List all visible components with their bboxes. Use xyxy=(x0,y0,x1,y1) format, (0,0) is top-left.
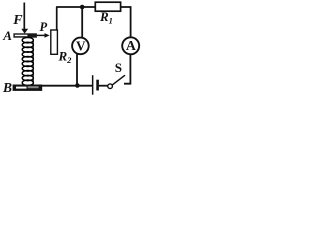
svg-text:S: S xyxy=(115,60,122,75)
svg-text:A: A xyxy=(2,28,12,43)
svg-text:P: P xyxy=(40,20,48,34)
node: bottom junction xyxy=(75,83,80,88)
rheostat R2 xyxy=(51,30,58,54)
svg-text:F: F xyxy=(12,13,23,28)
wire: R2 top up to top rail xyxy=(56,7,58,31)
battery xyxy=(92,75,99,95)
wire: top rail xyxy=(56,6,95,8)
switch S lever and pivot xyxy=(108,75,125,88)
wiper arrow P xyxy=(37,33,50,38)
spring xyxy=(22,38,33,86)
wire: junction down to voltmeter xyxy=(81,7,83,38)
wire: R1 to top-right corner and down xyxy=(121,7,131,38)
svg-text:V: V xyxy=(76,39,86,54)
resistor R1 xyxy=(95,2,120,11)
ammeter A xyxy=(122,37,139,54)
wire: voltmeter bottom down to bottom rail xyxy=(76,54,78,86)
wire: ammeter down to bottom-right corner xyxy=(124,54,130,84)
bottom plate B xyxy=(13,85,43,91)
wire: bottom rail xyxy=(41,85,92,87)
force arrow F xyxy=(21,3,28,34)
voltmeter V xyxy=(72,38,89,55)
node: top junction xyxy=(80,5,85,10)
slider bar A-P (wiper plate) xyxy=(13,33,37,37)
svg-text:B: B xyxy=(2,80,12,95)
svg-text:A: A xyxy=(126,38,136,53)
wire: battery to switch xyxy=(99,85,108,87)
